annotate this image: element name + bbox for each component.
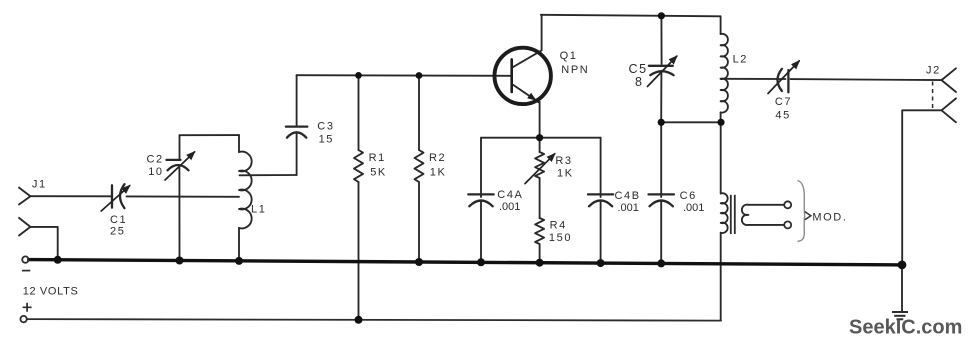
svg-text:1K: 1K	[557, 167, 574, 179]
svg-text:.001: .001	[683, 202, 704, 214]
svg-text:L1: L1	[251, 204, 266, 216]
svg-text:45: 45	[775, 110, 790, 122]
svg-text:R1: R1	[369, 152, 386, 164]
svg-text:C5: C5	[629, 62, 648, 76]
svg-text:J2: J2	[926, 65, 941, 77]
svg-text:C1: C1	[110, 214, 127, 226]
svg-text:.001: .001	[499, 201, 520, 213]
svg-text:12 VOLTS: 12 VOLTS	[23, 285, 79, 297]
svg-text:R2: R2	[429, 152, 446, 164]
svg-text:L2: L2	[733, 54, 748, 66]
svg-text:J1: J1	[32, 179, 47, 191]
svg-text:.001: .001	[618, 202, 639, 214]
svg-text:C3: C3	[317, 120, 334, 132]
svg-text:NPN: NPN	[561, 64, 589, 76]
svg-text:R4: R4	[550, 219, 567, 231]
svg-text:5K: 5K	[370, 166, 387, 178]
svg-text:MOD.: MOD.	[812, 212, 847, 224]
svg-text:C4B: C4B	[615, 190, 641, 202]
svg-text:C7: C7	[775, 96, 792, 108]
svg-text:Q1: Q1	[560, 50, 578, 62]
svg-text:15: 15	[319, 134, 334, 146]
svg-text:R3: R3	[555, 155, 572, 167]
svg-text:1K: 1K	[430, 166, 447, 178]
svg-text:150: 150	[549, 232, 572, 244]
svg-text:C6: C6	[680, 190, 697, 202]
svg-text:8: 8	[635, 75, 644, 89]
svg-text:SeekIC.com: SeekIC.com	[849, 317, 962, 339]
svg-text:C2: C2	[147, 153, 164, 165]
svg-text:10: 10	[148, 166, 163, 178]
svg-text:25: 25	[110, 226, 125, 238]
svg-text:C4A: C4A	[497, 189, 523, 201]
